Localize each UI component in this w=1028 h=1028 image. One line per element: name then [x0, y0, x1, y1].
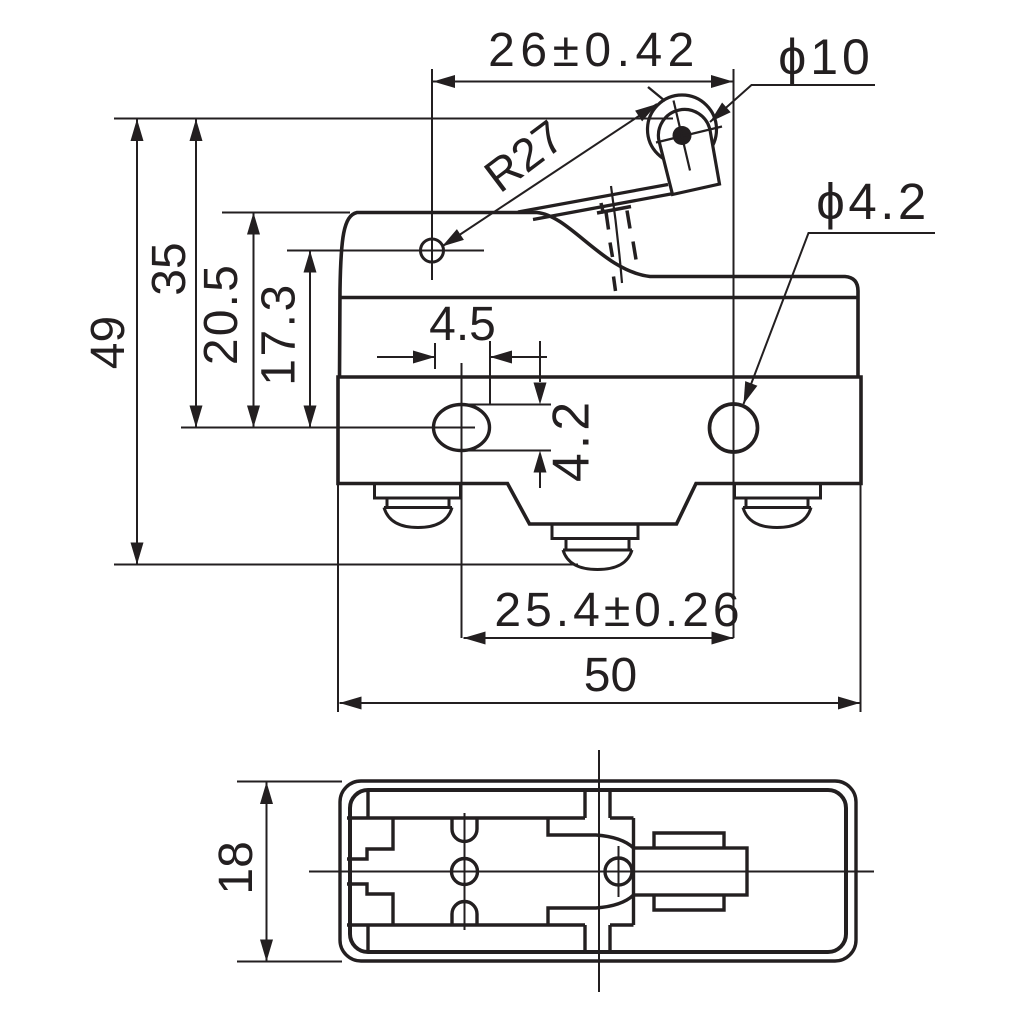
- svg-text:ϕ4.2: ϕ4.2: [816, 173, 929, 230]
- holes horizontal centerline / 35 bottom extension: [181, 427, 475, 429]
- bottom view vertical centerline: [598, 750, 600, 992]
- R27 tangent tick: [648, 87, 665, 101]
- arrow 4.5 right: [413, 351, 435, 364]
- 49 dimension line: [136, 119, 138, 565]
- roller axle dot: [673, 126, 692, 145]
- cavity bottom line right part: [610, 923, 634, 926]
- lever main plate: [634, 848, 748, 895]
- mounting hole right (dia 4.2): [710, 404, 758, 452]
- left step lower: [347, 884, 393, 925]
- lever plate vertical bottom: [632, 895, 635, 925]
- arrow 4.5 left: [490, 351, 512, 364]
- arrow 4.2 down: [534, 383, 547, 405]
- arrow dia4.2 leader: [744, 381, 758, 404]
- arrow 25.4 right: [712, 632, 734, 645]
- pivot circle centerline: [618, 846, 620, 897]
- tick leg a: [606, 212, 609, 230]
- terminal T1 left: [375, 484, 461, 528]
- arrow R27 outer: [635, 104, 657, 121]
- arrow 25.4 left: [464, 632, 486, 645]
- svg-text:17.3: 17.3: [253, 282, 306, 385]
- plunger step top: [548, 818, 634, 848]
- 50 right extension: [860, 484, 862, 712]
- R27 dimension line: [442, 104, 657, 247]
- cavity top line: [347, 816, 585, 819]
- tick small upper: [601, 203, 604, 214]
- left step upper: [347, 818, 393, 859]
- arrow 35 down: [190, 406, 203, 428]
- 20.5 top extension: [222, 212, 350, 214]
- arrow R27 inner: [442, 229, 464, 246]
- lever end bracket: [658, 109, 719, 194]
- 18 bottom extension: [237, 961, 342, 963]
- 20.5 dimension line: [253, 213, 255, 428]
- lever tab bottom: [654, 895, 724, 910]
- centre contact centerline: [464, 813, 466, 930]
- 25.4 dimension line: [464, 637, 734, 639]
- arrow 18 up: [260, 782, 273, 804]
- arrow 20.5 up: [247, 213, 260, 235]
- arrow 35 up: [190, 119, 203, 141]
- svg-text:49: 49: [82, 316, 135, 369]
- 50 left extension: [337, 484, 339, 712]
- dimension extension line y=118.5 (49/35 top ref): [114, 118, 673, 120]
- tick leg b: [627, 211, 630, 229]
- arrow 18 down: [260, 940, 273, 962]
- pivot vertical centerline / 26 left extension: [431, 69, 433, 280]
- left rib top: [366, 790, 369, 818]
- svg-text:4.5: 4.5: [429, 298, 496, 351]
- lever strip: [518, 185, 674, 220]
- centre contact circle: [452, 859, 478, 885]
- arrow 20.5 down: [247, 406, 260, 428]
- dia4.2 leader: [744, 233, 936, 404]
- 18 top extension: [237, 781, 342, 783]
- plunger step bottom: [548, 895, 634, 925]
- 26 dimension line: [433, 81, 733, 83]
- svg-text:26±0.42: 26±0.42: [488, 24, 700, 77]
- roller outer circle (dia 10): [648, 95, 717, 164]
- 49 bottom extension: [114, 564, 578, 566]
- bottom view inner case: [350, 790, 846, 952]
- switch upper body outline: [340, 213, 859, 378]
- 26/25.4 right extension line: [733, 69, 735, 638]
- lever tab top: [654, 833, 724, 848]
- roller centerline along lever: [656, 127, 722, 143]
- lever pivot circle: [605, 858, 632, 885]
- lever travel arc: [611, 186, 622, 283]
- slot top tangent line: [469, 404, 551, 406]
- roller centerline perpendicular: [674, 101, 691, 171]
- svg-text:50: 50: [584, 649, 637, 702]
- arrow 49 down: [131, 543, 144, 565]
- U slot top: [452, 818, 477, 842]
- slot rib right: [608, 790, 611, 952]
- U slot bottom: [452, 901, 477, 925]
- arrow 49 up: [131, 119, 144, 141]
- cavity bottom line: [347, 923, 585, 926]
- 4.2 arrow shaft bottom: [539, 472, 541, 488]
- mounting hole left (slot 4.5 x 4.2): [434, 405, 490, 451]
- svg-text:4.2: 4.2: [543, 398, 601, 482]
- terminal T3 right: [735, 484, 821, 528]
- arrow 4.2 up: [534, 451, 547, 473]
- bottom view horizontal centerline: [309, 871, 874, 873]
- arrow 17.3 down: [304, 406, 317, 428]
- terminal T2 centre: [552, 524, 638, 570]
- 50 dimension line: [340, 702, 861, 704]
- switch lower body outline: [338, 377, 861, 524]
- arrow 50 right: [838, 697, 860, 710]
- slot bottom tangent line: [469, 450, 551, 452]
- 4.5 left extension: [434, 343, 436, 369]
- 35 dimension line: [195, 119, 197, 428]
- slot rib left: [583, 790, 586, 952]
- 4.5 arrow shafts: [377, 356, 547, 358]
- dashed lever position dash 1: [610, 243, 613, 258]
- svg-text:25.4±0.26: 25.4±0.26: [494, 584, 743, 637]
- dashed lever position dash 2: [633, 242, 636, 260]
- arrow 50 left: [340, 697, 362, 710]
- 18 dimension line: [266, 782, 268, 962]
- 4.2 arrow shaft top: [539, 341, 541, 382]
- arrow 17.3 up: [304, 251, 317, 273]
- body mid parting line: [339, 296, 858, 300]
- svg-text:20.5: 20.5: [195, 263, 248, 365]
- bottom view outer case: [340, 781, 856, 961]
- svg-text:ϕ10: ϕ10: [778, 29, 874, 85]
- arrow 26 left: [433, 75, 455, 88]
- lever pivot hole: [421, 239, 444, 262]
- cavity top line right part: [610, 816, 634, 819]
- arrow 26 right: [711, 75, 733, 88]
- dashed lever position dash 3: [614, 277, 616, 292]
- left hole vertical centerline / 25.4 left extension: [461, 363, 463, 638]
- svg-text:35: 35: [143, 242, 196, 295]
- pivot horizontal centerline / 17.3 top extension: [287, 250, 484, 252]
- lever position tick bar: [597, 207, 631, 214]
- 17.3 dimension line: [309, 251, 311, 428]
- arrow dia10 leader: [710, 103, 731, 123]
- left rib bottom: [366, 925, 369, 952]
- dia10 leader: [710, 85, 875, 122]
- svg-text:18: 18: [210, 841, 263, 894]
- lever plate vertical top: [632, 818, 635, 848]
- 4.5 right extension: [489, 341, 491, 404]
